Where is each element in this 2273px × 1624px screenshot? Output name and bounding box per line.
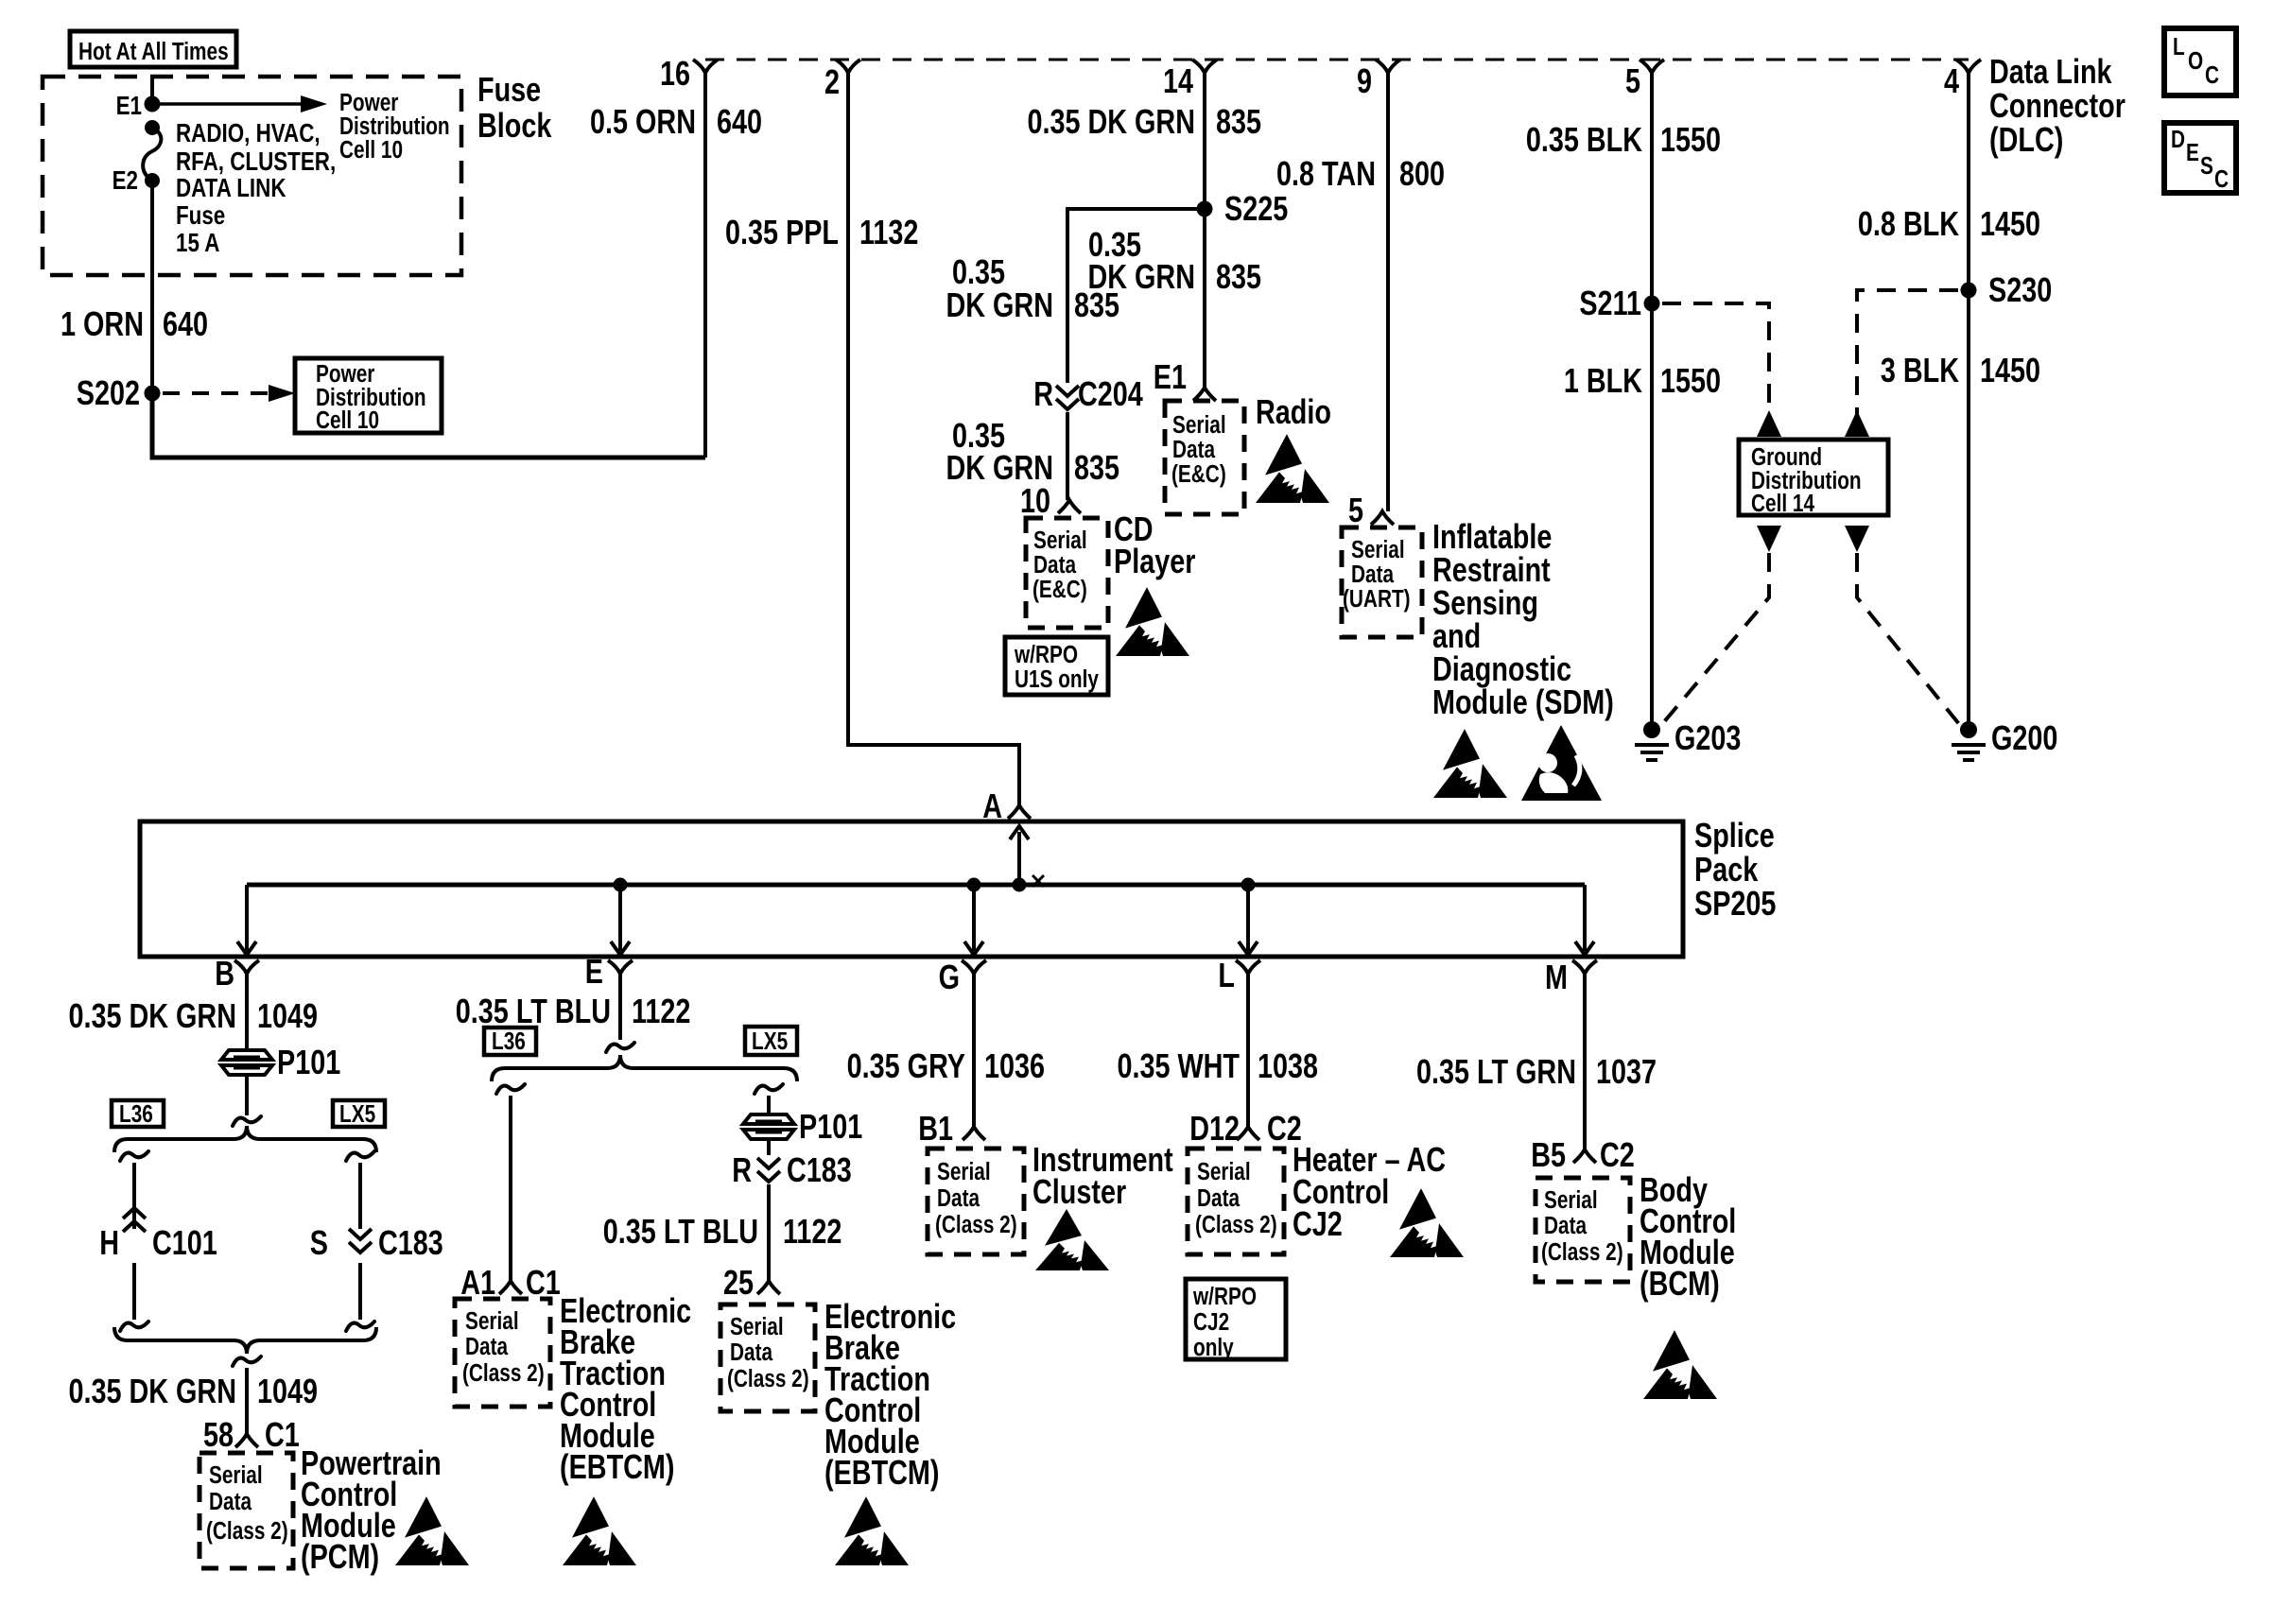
wire A1 branch: [496, 1084, 525, 1094]
connector C183 pin S: [349, 1229, 372, 1239]
branch brace L36/LX5 E: [492, 1055, 797, 1081]
node S211: [1644, 296, 1660, 312]
svg-text:15 A: 15 A: [176, 229, 219, 258]
svg-text:(Class 2): (Class 2): [1195, 1211, 1277, 1238]
svg-text:Serial: Serial: [209, 1461, 263, 1489]
svg-text:1 ORN: 1 ORN: [61, 304, 144, 343]
ESD symbol CD player: [1116, 587, 1189, 656]
svg-text:CJ2: CJ2: [1193, 1308, 1229, 1336]
Radio Serial Data (E&C) box: [1165, 401, 1244, 514]
svg-text:M: M: [1545, 958, 1568, 996]
svg-text:SP205: SP205: [1694, 884, 1776, 923]
connector C101 pin H: [123, 1221, 146, 1232]
splice leg G: [967, 878, 981, 892]
wire 0.35 LT GRN 1037: [1583, 974, 1587, 1149]
svg-text:Cell 10: Cell 10: [339, 136, 403, 164]
svg-text:(Class 2): (Class 2): [727, 1365, 809, 1392]
box Ground Distribution Cell 14: [1739, 440, 1888, 515]
svg-text:2: 2: [824, 62, 840, 101]
connector DLC pin 16: [693, 60, 718, 73]
svg-text:1132: 1132: [859, 213, 918, 251]
svg-text:P101: P101: [799, 1107, 862, 1146]
svg-text:(BCM): (BCM): [1640, 1264, 1720, 1303]
svg-text:1 BLK: 1 BLK: [1564, 361, 1643, 400]
splice pack SP205 box: [140, 821, 1683, 957]
svg-text:1036: 1036: [984, 1046, 1045, 1085]
wire 0.8 TAN 800 to SDM: [1386, 73, 1390, 511]
HVAC Serial Data (Class 2) box: [1188, 1149, 1284, 1254]
svg-text:only: only: [1193, 1334, 1234, 1361]
option box LX5: [333, 1100, 385, 1127]
svg-text:A: A: [982, 786, 1002, 825]
connector C204 pin R: [1056, 386, 1079, 396]
svg-text:LX5: LX5: [752, 1028, 788, 1055]
svg-text:Cell 14: Cell 14: [1751, 490, 1814, 517]
svg-text:B1: B1: [918, 1109, 953, 1148]
svg-text:25: 25: [723, 1263, 754, 1302]
svg-text:Data: Data: [937, 1184, 980, 1212]
box Power Distribution Cell 10: [295, 358, 442, 433]
svg-text:1037: 1037: [1596, 1052, 1657, 1091]
svg-text:14: 14: [1163, 61, 1193, 100]
wire H branch lower: [132, 1263, 136, 1320]
wire 0.35 LT BLU 1122 upper: [618, 974, 622, 1040]
CD player Serial Data (E&C) box: [1026, 518, 1108, 628]
node S202: [145, 386, 161, 402]
arrow into ground distribution left: [1757, 410, 1781, 437]
svg-text:16: 16: [660, 54, 690, 93]
wire 0.35 BLK 1550: [1650, 73, 1654, 730]
svg-text:(PCM): (PCM): [301, 1537, 379, 1576]
svg-text:CJ2: CJ2: [1293, 1204, 1343, 1243]
fuse block dashed outline: [43, 77, 461, 275]
svg-text:Serial: Serial: [465, 1307, 519, 1335]
dashed arrow S202 to Power Distribution: [163, 391, 276, 395]
svg-text:RADIO, HVAC,: RADIO, HVAC,: [176, 119, 321, 148]
dashed wire S211 to ground distribution: [1662, 303, 1769, 421]
svg-text:Connector: Connector: [1989, 86, 2126, 125]
svg-text:0.35 GRY: 0.35 GRY: [847, 1046, 966, 1085]
svg-text:S230: S230: [1988, 270, 2052, 309]
svg-text:E1: E1: [116, 92, 142, 121]
wire 0.5 ORN 640: [703, 73, 707, 458]
svg-text:0.35 PPL: 0.35 PPL: [725, 213, 839, 251]
svg-text:5: 5: [1625, 61, 1640, 100]
splice leg M: [1583, 885, 1587, 951]
svg-text:0.35 DK GRN: 0.35 DK GRN: [68, 1372, 236, 1410]
svg-text:835: 835: [1216, 257, 1261, 296]
svg-text:5: 5: [1348, 491, 1363, 529]
svg-text:0.35 WHT: 0.35 WHT: [1117, 1046, 1240, 1085]
SDM Serial Data (UART) box: [1342, 527, 1422, 637]
connector C183 pin R: [767, 1139, 771, 1155]
ESD symbol HVAC: [1390, 1188, 1464, 1257]
option box L36 E: [484, 1028, 536, 1055]
dashed bus Data Link Connector: [705, 59, 1969, 61]
splice leg E: [614, 878, 628, 892]
splice leg L: [1241, 878, 1256, 892]
grommet P101 E branch: [743, 1114, 794, 1124]
svg-text:Data: Data: [1197, 1184, 1241, 1212]
svg-text:C204: C204: [1078, 374, 1143, 413]
wire below P101: [245, 1075, 249, 1115]
wire fuse output 1 ORN 640: [150, 181, 154, 458]
svg-text:Hot At All Times: Hot At All Times: [78, 38, 229, 65]
svg-text:G: G: [939, 958, 960, 996]
arrow out of ground distribution right: [1845, 526, 1869, 552]
svg-text:10: 10: [1020, 481, 1050, 520]
svg-text:0.8 BLK: 0.8 BLK: [1858, 204, 1960, 243]
svg-text:E: E: [585, 952, 603, 991]
svg-text:835: 835: [1074, 285, 1119, 324]
svg-text:1049: 1049: [257, 1372, 318, 1410]
svg-text:Data: Data: [209, 1488, 252, 1515]
ESD symbol PCM: [395, 1496, 469, 1565]
wire battery feed into fuse block: [150, 77, 154, 104]
wire S202 down and right to DLC pin 16 drop: [152, 393, 705, 458]
svg-text:L36: L36: [119, 1100, 153, 1128]
connector DLC pin 5: [1640, 60, 1664, 73]
svg-text:Serial: Serial: [937, 1158, 991, 1185]
arrow out of ground distribution left: [1757, 526, 1781, 552]
svg-text:835: 835: [1216, 102, 1261, 141]
svg-text:U1S only: U1S only: [1015, 665, 1099, 693]
box w/RPO CJ2 only: [1186, 1279, 1286, 1359]
svg-text:C1: C1: [526, 1263, 561, 1302]
svg-text:0.35 DK GRN: 0.35 DK GRN: [68, 996, 236, 1035]
fuse RADIO HVAC RFA CLUSTER DATA LINK 15 A: [145, 120, 160, 135]
svg-text:(Class 2): (Class 2): [935, 1211, 1017, 1238]
svg-text:3 BLK: 3 BLK: [1881, 351, 1960, 389]
svg-text:1450: 1450: [1980, 351, 2040, 389]
svg-text:(EBTCM): (EBTCM): [824, 1453, 940, 1492]
svg-text:RFA, CLUSTER,: RFA, CLUSTER,: [176, 147, 336, 177]
svg-text:Block: Block: [477, 106, 552, 145]
svg-text:C183: C183: [787, 1150, 852, 1189]
svg-text:D12: D12: [1189, 1109, 1240, 1148]
connector DLC pin 2: [836, 60, 860, 73]
ESD symbol EBTCM 2: [835, 1496, 909, 1565]
wire 0.35 WHT 1038: [1246, 974, 1250, 1127]
closing brace B branch: [114, 1327, 376, 1354]
svg-text:Fuse: Fuse: [176, 201, 225, 231]
svg-text:C2: C2: [1600, 1135, 1635, 1174]
svg-text:Serial: Serial: [1544, 1186, 1598, 1214]
wire 0.8 BLK 1450: [1967, 73, 1970, 730]
svg-text:Data: Data: [465, 1333, 509, 1360]
wire 0.35 LT BLU 1122 lower: [767, 1184, 771, 1281]
IC Serial Data (Class 2) box: [928, 1149, 1024, 1254]
svg-text:Serial: Serial: [1033, 527, 1087, 554]
svg-text:Cluster: Cluster: [1032, 1172, 1126, 1211]
svg-text:(DLC): (DLC): [1989, 120, 2063, 159]
svg-text:D: D: [2171, 126, 2185, 153]
wire 0.35 DK GRN 1049 lower: [245, 1368, 249, 1434]
svg-text:1550: 1550: [1660, 120, 1721, 159]
node S225: [1197, 201, 1213, 217]
wire 0.35 GRY 1036: [972, 974, 976, 1127]
svg-text:C183: C183: [378, 1223, 443, 1262]
svg-text:Module (SDM): Module (SDM): [1432, 682, 1614, 721]
PCM Serial Data (Class 2) box: [200, 1453, 293, 1568]
svg-text:Data: Data: [1172, 436, 1216, 463]
svg-text:(UART): (UART): [1343, 585, 1411, 613]
svg-text:1550: 1550: [1660, 361, 1721, 400]
svg-text:w/RPO: w/RPO: [1192, 1283, 1257, 1310]
svg-text:S: S: [310, 1223, 328, 1262]
wire 0.35 DK GRN 835 upper: [1203, 73, 1206, 388]
box w/RPO U1S only: [1005, 637, 1108, 695]
svg-text:800: 800: [1399, 154, 1445, 193]
svg-text:B: B: [215, 954, 234, 993]
connector DLC pin 14: [1192, 60, 1217, 73]
svg-text:0.35 LT BLU: 0.35 LT BLU: [456, 992, 611, 1030]
svg-text:LX5: LX5: [339, 1100, 375, 1128]
EBTCM Serial Data (Class 2) box 1: [455, 1299, 550, 1407]
svg-text:R: R: [1033, 374, 1053, 413]
splice bus bar: [247, 883, 1585, 888]
EBTCM Serial Data (Class 2) box 2: [720, 1304, 815, 1411]
svg-text:L: L: [2173, 33, 2185, 60]
svg-text:L36: L36: [492, 1028, 526, 1055]
svg-text:(E&C): (E&C): [1032, 576, 1087, 603]
branch brace L36/LX5: [114, 1126, 376, 1152]
grommet P101 B branch: [221, 1050, 272, 1060]
svg-text:1122: 1122: [783, 1212, 842, 1251]
connector DLC pin 4: [1956, 60, 1981, 73]
wire 0.35 DK GRN 835 to CD player: [1066, 412, 1069, 500]
svg-text:0.35 DK GRN: 0.35 DK GRN: [1027, 102, 1195, 141]
svg-text:S225: S225: [1224, 189, 1288, 228]
svg-text:B5: B5: [1531, 1135, 1566, 1174]
ESD symbol BCM: [1643, 1330, 1717, 1399]
wire 0.35 PPL 1132 to splice pack A: [848, 73, 1019, 805]
svg-text:Pack: Pack: [1694, 850, 1759, 889]
svg-text:58: 58: [203, 1415, 234, 1454]
svg-text:Serial: Serial: [730, 1313, 784, 1340]
option box L36: [112, 1100, 164, 1127]
arrow E1 to Power Distribution Cell 10: [152, 102, 304, 106]
box LOC legend: [2164, 28, 2236, 95]
svg-text:1450: 1450: [1980, 204, 2040, 243]
svg-text:(Class 2): (Class 2): [462, 1359, 545, 1387]
svg-text:1049: 1049: [257, 996, 318, 1035]
svg-text:0.35 LT BLU: 0.35 LT BLU: [603, 1212, 758, 1251]
svg-text:Radio: Radio: [1256, 392, 1331, 431]
svg-text:C1: C1: [265, 1415, 300, 1454]
svg-text:0.35 LT GRN: 0.35 LT GRN: [1416, 1052, 1576, 1091]
svg-text:S211: S211: [1579, 284, 1641, 322]
svg-text:S: S: [2200, 152, 2213, 180]
svg-text:Player: Player: [1114, 542, 1196, 580]
svg-text:G203: G203: [1674, 718, 1741, 757]
svg-text:(EBTCM): (EBTCM): [560, 1447, 675, 1486]
svg-text:640: 640: [717, 102, 762, 141]
svg-text:C: C: [2205, 61, 2219, 89]
svg-text:C101: C101: [152, 1223, 217, 1262]
arrow into ground distribution right: [1845, 410, 1869, 437]
node E1: [145, 96, 161, 112]
svg-text:R: R: [732, 1150, 752, 1189]
svg-text:Serial: Serial: [1351, 536, 1405, 563]
ground G203: [1643, 721, 1660, 738]
splice leg B: [245, 885, 249, 951]
svg-text:Data: Data: [1351, 561, 1395, 588]
svg-text:(E&C): (E&C): [1171, 460, 1226, 488]
svg-text:Serial: Serial: [1197, 1158, 1251, 1185]
svg-text:Serial: Serial: [1172, 411, 1226, 439]
svg-text:Data: Data: [1544, 1212, 1588, 1239]
svg-text:4: 4: [1944, 61, 1959, 100]
wire 25 branch upper: [755, 1084, 783, 1094]
svg-text:w/RPO: w/RPO: [1014, 641, 1078, 668]
svg-text:S202: S202: [77, 373, 140, 412]
svg-text:835: 835: [1074, 448, 1119, 487]
svg-text:Data: Data: [1033, 551, 1077, 579]
wire 0.35 DK GRN 1049 upper: [245, 974, 249, 1051]
svg-text:A1: A1: [460, 1263, 495, 1302]
svg-text:H: H: [99, 1223, 119, 1262]
splice leg A up-arrow: [1017, 832, 1021, 885]
label box Hot At All Times: [70, 31, 236, 67]
svg-text:G200: G200: [1991, 718, 2057, 757]
svg-text:Splice: Splice: [1694, 816, 1775, 855]
ESD symbol SDM: [1433, 729, 1507, 798]
wire H branch upper curl: [120, 1151, 148, 1161]
svg-text:C: C: [2214, 165, 2229, 193]
dashed wire S230 to ground distribution: [1857, 290, 1958, 421]
svg-text:(Class 2): (Class 2): [206, 1517, 288, 1545]
svg-text:640: 640: [163, 304, 208, 343]
svg-text:0.8 TAN: 0.8 TAN: [1276, 154, 1376, 193]
svg-text:E: E: [2186, 139, 2199, 166]
svg-text:Cell 10: Cell 10: [316, 406, 379, 434]
svg-text:E2: E2: [113, 166, 138, 196]
ESD symbol EBTCM 1: [563, 1496, 636, 1565]
connector DLC pin 9: [1376, 60, 1400, 73]
svg-text:9: 9: [1357, 61, 1372, 100]
svg-text:Data: Data: [730, 1339, 773, 1366]
ESD symbol Radio: [1256, 434, 1329, 503]
svg-text:L: L: [1218, 956, 1235, 994]
svg-text:1122: 1122: [632, 992, 690, 1030]
option box LX5 E: [745, 1027, 797, 1055]
wire S225 branch to C204: [1067, 209, 1205, 383]
svg-text:E1: E1: [1154, 357, 1187, 396]
wire S branch lower: [358, 1263, 362, 1320]
svg-text:P101: P101: [277, 1043, 340, 1081]
svg-text:Data Link: Data Link: [1989, 52, 2112, 91]
SIR airbag symbol SDM: [1521, 725, 1602, 801]
svg-text:Fuse: Fuse: [477, 70, 541, 109]
svg-text:0.5 ORN: 0.5 ORN: [590, 102, 696, 141]
svg-text:O: O: [2188, 47, 2203, 75]
ESD symbol Instrument Cluster: [1035, 1209, 1109, 1270]
BCM Serial Data (Class 2) box: [1536, 1178, 1630, 1282]
svg-text:DATA LINK: DATA LINK: [176, 174, 286, 203]
svg-text:(Class 2): (Class 2): [1541, 1238, 1623, 1266]
svg-text:0.35 BLK: 0.35 BLK: [1526, 120, 1643, 159]
wire S branch upper curl: [346, 1151, 374, 1161]
dashed wire to G203: [1662, 553, 1769, 724]
svg-text:DK GRN: DK GRN: [946, 285, 1053, 324]
dashed wire to G200: [1857, 553, 1959, 724]
svg-text:1038: 1038: [1258, 1046, 1318, 1085]
node S230: [1961, 283, 1977, 299]
ground G200: [1960, 721, 1977, 738]
box DESC legend: [2164, 123, 2236, 193]
